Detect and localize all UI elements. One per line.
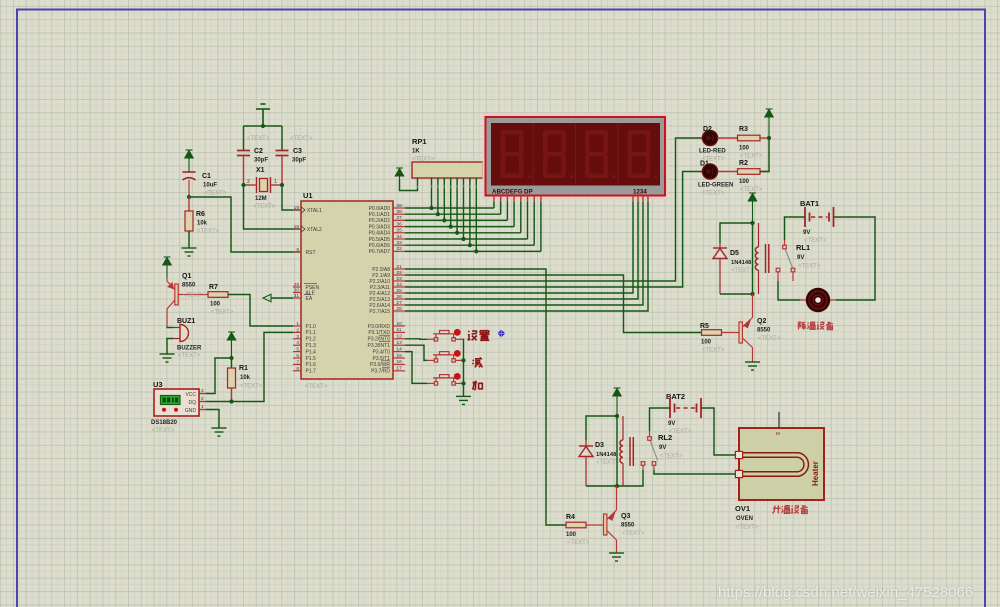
svg-text:BUZZER: BUZZER [177, 346, 202, 352]
svg-text:P1.3: P1.3 [306, 343, 317, 349]
svg-text:19: 19 [294, 205, 300, 211]
wire top rail C2-C3 [244, 125, 283, 127]
node: C1/R6/RST junction [187, 195, 191, 199]
wire RL2 center rail [616, 416, 618, 486]
svg-text:1N4148: 1N4148 [731, 260, 752, 266]
svg-text:30pF: 30pF [292, 158, 306, 164]
svg-text:D3: D3 [595, 442, 604, 449]
svg-text:P0.5/AD5: P0.5/AD5 [369, 237, 391, 243]
svg-text:P1.7: P1.7 [306, 369, 317, 375]
svg-text:26: 26 [397, 294, 403, 300]
svg-text:37: 37 [397, 215, 403, 221]
wire P2.1 to R5 [405, 275, 702, 333]
wire buzzer to ground [167, 339, 173, 355]
svg-text:100: 100 [210, 302, 221, 308]
node RL2 bottom [615, 484, 619, 488]
svg-text:OV1: OV1 [735, 504, 750, 513]
svg-text:DP: DP [524, 189, 533, 196]
svg-text:17: 17 [397, 366, 403, 372]
power symbol (LED rail) [765, 109, 773, 138]
LED D1 (LED-GREEN) [702, 164, 717, 179]
wire C1 junction to RST [189, 197, 301, 252]
svg-text:1N4148: 1N4148 [596, 452, 617, 458]
svg-text:P3.4/T0: P3.4/T0 [372, 349, 390, 355]
svg-text:15: 15 [397, 353, 403, 359]
wire D5 loop bottom [720, 293, 753, 295]
svg-text:P0.0/AD0: P0.0/AD0 [369, 206, 391, 212]
svg-text:DS18B20: DS18B20 [151, 420, 178, 426]
svg-text:39: 39 [397, 203, 403, 209]
wire P2.0 to R4 [405, 269, 566, 525]
svg-text:10uF: 10uF [203, 183, 217, 189]
svg-text:P1.4: P1.4 [306, 349, 317, 355]
svg-text:P1.1: P1.1 [306, 330, 317, 336]
svg-text:10: 10 [397, 321, 403, 327]
power symbol (R1) [227, 332, 235, 358]
svg-text:9V: 9V [797, 255, 804, 261]
svg-text:EA: EA [306, 296, 313, 302]
svg-text:1K: 1K [412, 149, 420, 155]
svg-text:XTAL2: XTAL2 [306, 227, 323, 233]
svg-text:5: 5 [296, 347, 299, 353]
svg-text:RP1: RP1 [412, 137, 427, 146]
RP1 pins 2-9 wires to P0 bus [431, 178, 433, 208]
label: cooling device (Chinese) [799, 322, 806, 330]
transistor Q1 (8550) [167, 277, 208, 327]
svg-text:P0.2/AD2: P0.2/AD2 [369, 218, 391, 224]
wire D3 loop bottom to RL2 contact [586, 470, 643, 486]
svg-text:D1: D1 [700, 161, 709, 168]
svg-text:1234: 1234 [633, 189, 647, 196]
svg-text:P0.3/AD3: P0.3/AD3 [369, 224, 391, 230]
svg-text:1: 1 [296, 321, 299, 327]
svg-text:<TEXT>: <TEXT> [204, 191, 227, 197]
resistor R6 [188, 197, 190, 211]
svg-text:ABCDEFG: ABCDEFG [492, 189, 523, 196]
svg-text:Q2: Q2 [757, 318, 766, 325]
svg-text:<TEXT>: <TEXT> [305, 384, 328, 390]
wire U3 DQ to P1.1 [206, 332, 293, 401]
svg-text:R7: R7 [209, 284, 218, 291]
display digit pins to P2 bus [632, 196, 634, 203]
svg-text:11: 11 [397, 327, 402, 333]
svg-text:RST: RST [306, 250, 316, 256]
ground (R6) [182, 248, 197, 256]
node SW3 common [461, 381, 465, 385]
svg-text:Q1: Q1 [182, 273, 191, 280]
svg-text:P3.0/RXD: P3.0/RXD [368, 324, 391, 330]
U1 left-side pins [293, 209, 301, 211]
svg-text:9V: 9V [803, 230, 810, 236]
svg-text:P0.7/AD7: P0.7/AD7 [369, 249, 391, 255]
svg-text:22: 22 [397, 270, 403, 276]
svg-text:2: 2 [296, 327, 299, 333]
svg-text:9: 9 [296, 247, 299, 253]
wire D3 loop top [586, 416, 617, 440]
svg-text:R1: R1 [239, 365, 248, 372]
capacitor C3 [281, 126, 283, 150]
svg-text:33: 33 [397, 240, 403, 246]
svg-text:P2.7/A15: P2.7/A15 [369, 309, 390, 315]
svg-text:U3: U3 [153, 380, 163, 389]
node R1/DQ junction [229, 399, 233, 403]
svg-text:<TEXT>: <TEXT> [736, 525, 759, 531]
push button SW2 (minus) [427, 352, 463, 363]
svg-text:100: 100 [739, 179, 750, 185]
svg-text:<TEXT>: <TEXT> [804, 238, 827, 244]
resistor R2 [718, 171, 738, 173]
svg-text:38: 38 [397, 209, 403, 215]
label: set button (Chinese) [468, 331, 477, 340]
node X1 pin2 [241, 183, 245, 187]
wire D5 loop top [720, 223, 753, 243]
svg-text:XTAL1: XTAL1 [306, 208, 323, 214]
relay RL2 switch [641, 431, 656, 470]
svg-text:8550: 8550 [182, 283, 196, 289]
svg-text:<TEXT>: <TEXT> [567, 540, 590, 546]
svg-text:OVEN: OVEN [736, 516, 753, 522]
push button SW3 (plus) [427, 375, 463, 386]
svg-text:18: 18 [294, 224, 300, 230]
ground (buttons) [456, 396, 471, 404]
resistor R7 [208, 292, 228, 298]
svg-text:8550: 8550 [621, 523, 635, 529]
node SW2 common [461, 358, 465, 362]
power symbol (RL1 rail) [748, 193, 756, 223]
node RL1 bottom [750, 292, 754, 296]
svg-text:4: 4 [296, 340, 299, 346]
wire P3.3 to SW2 [405, 345, 427, 360]
wire P2.2 to LED D2 [405, 138, 703, 281]
svg-text:X1: X1 [256, 167, 265, 174]
diode D3 (1N4148) [579, 440, 593, 486]
svg-text:3: 3 [296, 334, 299, 340]
svg-text:Heater: Heater [811, 461, 820, 486]
wire buttons common to ground [462, 339, 465, 396]
svg-text:C1: C1 [202, 173, 211, 180]
wire RL1 contact to motor left [778, 281, 800, 300]
node LED rail [767, 136, 771, 140]
svg-text:https://blog.csdn.net/weixin_4: https://blog.csdn.net/weixin_47528066 [718, 584, 973, 601]
capacitor C2 [243, 126, 245, 150]
svg-text:34: 34 [397, 234, 403, 240]
svg-text:M: M [776, 431, 780, 436]
svg-text:10k: 10k [240, 375, 251, 381]
svg-text:VCC: VCC [185, 392, 196, 398]
svg-text:<TEXT>: <TEXT> [622, 531, 645, 537]
node RL2 top [615, 414, 619, 418]
svg-text:<TEXT>: <TEXT> [702, 191, 725, 197]
ground (Q3) [609, 553, 624, 561]
capacitor C1 [183, 172, 196, 180]
svg-text:R5: R5 [700, 323, 709, 330]
svg-text:13: 13 [397, 340, 403, 346]
svg-text:<TEXT>: <TEXT> [596, 460, 619, 466]
svg-text:P0.6/AD6: P0.6/AD6 [369, 243, 391, 249]
svg-text:<TEXT>: <TEXT> [240, 384, 263, 390]
svg-text:24: 24 [397, 282, 403, 288]
oven OV1 (heater) [735, 412, 824, 500]
svg-text:LED-GREEN: LED-GREEN [698, 183, 733, 189]
svg-text:<TEXT>: <TEXT> [740, 154, 763, 160]
display segment pins to P0 bus [493, 196, 495, 203]
svg-text:U1: U1 [303, 191, 313, 200]
svg-text:GND: GND [185, 408, 197, 414]
svg-text:P0.1/AD1: P0.1/AD1 [369, 212, 391, 218]
svg-text:P3.3/INT1: P3.3/INT1 [367, 343, 390, 349]
svg-text:<TEXT>: <TEXT> [178, 353, 201, 359]
svg-text:23: 23 [397, 276, 403, 282]
wire X1 to XTAL2 [244, 185, 302, 229]
wire BAT1 to RL1 common [785, 217, 806, 240]
U1 right-side pins P0/P2/P3 [393, 207, 405, 209]
resistor R3 [718, 137, 738, 139]
svg-text:R4: R4 [566, 514, 575, 521]
wire Q1 collector to buzzer [167, 327, 173, 328]
push button SW1 (set) [427, 331, 463, 342]
wire U3 GND [206, 410, 219, 429]
LED D2 (LED-RED) [702, 130, 717, 145]
svg-text:6: 6 [296, 353, 299, 359]
svg-text:BAT1: BAT1 [800, 199, 819, 208]
label: heating device (Chinese) [773, 505, 781, 513]
svg-text:32: 32 [397, 246, 403, 252]
power symbol (Q1) [163, 257, 171, 277]
wire BAT2 to RL2 common [650, 408, 671, 431]
svg-text:30pF: 30pF [254, 158, 268, 164]
svg-text:R3: R3 [739, 126, 748, 133]
svg-text:<TEXT>: <TEXT> [290, 136, 313, 142]
ground (Q2) [745, 362, 760, 370]
wire X1 to XTAL1 [282, 185, 301, 210]
svg-text:P1.6: P1.6 [306, 362, 317, 368]
svg-text:P1.2: P1.2 [306, 337, 317, 343]
power symbol (RP1 common) [395, 168, 403, 180]
svg-text:P3.7/RD: P3.7/RD [371, 369, 390, 375]
transistor Q3 (8550) [586, 486, 617, 553]
cooling device label [0, 0, 1, 1]
label: plus button (Chinese) [472, 381, 482, 390]
svg-text:<TEXT>: <TEXT> [740, 187, 763, 193]
svg-text:9V: 9V [659, 445, 666, 451]
svg-text:P1.0: P1.0 [306, 324, 317, 330]
svg-text:8: 8 [296, 366, 299, 372]
svg-text:25: 25 [397, 288, 403, 294]
svg-text:28: 28 [397, 306, 403, 312]
node RL1 top [750, 221, 754, 225]
svg-text:<TEXT>: <TEXT> [660, 454, 683, 460]
svg-text:<TEXT>: <TEXT> [731, 268, 754, 274]
wire U3 VCC rail [206, 358, 232, 394]
svg-text:DQ: DQ [189, 400, 197, 406]
motor (cooling device) [800, 288, 836, 312]
svg-text:29: 29 [294, 282, 300, 288]
origin marker (blue diamond) [497, 330, 505, 338]
svg-text:10k: 10k [197, 221, 208, 227]
svg-text:2: 2 [247, 179, 250, 185]
wire BAT1 to motor right [834, 217, 876, 300]
wire LED rail to R2 [760, 138, 769, 172]
4-digit 7-segment display (red) [483, 114, 669, 199]
wire RL1 center rail [752, 223, 754, 294]
svg-text:35: 35 [397, 228, 403, 234]
svg-text:Q3: Q3 [621, 513, 630, 520]
svg-text:16: 16 [397, 359, 403, 365]
svg-text:14: 14 [397, 346, 403, 352]
svg-text:<TEXT>: <TEXT> [798, 264, 821, 270]
diode D5 (1N4148) [713, 243, 727, 294]
ground (BUZ1) [160, 354, 175, 362]
svg-text:<TEXT>: <TEXT> [669, 429, 692, 435]
svg-text:BAT2: BAT2 [666, 392, 685, 401]
svg-text:12M: 12M [255, 196, 267, 202]
ground (top of C2/C3) [256, 104, 270, 126]
svg-text:R6: R6 [196, 211, 205, 218]
svg-text:D5: D5 [730, 250, 739, 257]
wire P2.3 to LED D1 [405, 172, 703, 288]
ground (U3) [212, 428, 227, 436]
wire RP1 pin1 to power [400, 178, 418, 191]
svg-text:<TEXT>: <TEXT> [758, 336, 781, 342]
relay RL1 switch [776, 240, 795, 281]
wire EA pull with arrow [271, 297, 293, 299]
svg-text:<TEXT>: <TEXT> [247, 136, 270, 142]
node R1 top [229, 356, 233, 360]
wire RL2 contact to heater bottom terminal [654, 470, 735, 474]
svg-text:C2: C2 [254, 148, 263, 155]
svg-text:1: 1 [274, 179, 277, 185]
svg-text:RL1: RL1 [796, 243, 810, 252]
svg-text:12: 12 [397, 334, 403, 340]
svg-text:100: 100 [566, 532, 577, 538]
transistor Q2 (8550) [722, 294, 753, 362]
wire R7 to P1.0 [228, 295, 293, 327]
node X1 pin1 [280, 183, 284, 187]
wire P3.4 to SW3 [405, 352, 427, 384]
svg-text:7: 7 [296, 359, 299, 365]
svg-text:100: 100 [739, 146, 750, 152]
wire P3.2 to SW1 [405, 338, 427, 341]
svg-text:<TEXT>: <TEXT> [197, 229, 220, 235]
svg-text:<TEXT>: <TEXT> [152, 428, 175, 434]
P0 bus horizontal wires [405, 207, 494, 209]
svg-text:100: 100 [701, 340, 712, 346]
svg-text:21: 21 [397, 264, 403, 270]
svg-text:D2: D2 [703, 126, 712, 133]
svg-text:P0.4/AD4: P0.4/AD4 [369, 231, 391, 237]
node: top rail [261, 124, 265, 128]
svg-text:<TEXT>: <TEXT> [211, 310, 234, 316]
svg-text:9V: 9V [668, 421, 675, 427]
relay RL2 coil [620, 416, 633, 486]
relay RL1 coil [755, 223, 768, 294]
svg-text:36: 36 [397, 221, 403, 227]
svg-text:27: 27 [397, 300, 403, 306]
svg-text:C3: C3 [293, 148, 302, 155]
resistor R1 [231, 358, 233, 368]
svg-text:8550: 8550 [757, 328, 771, 334]
svg-text:LED-RED: LED-RED [699, 149, 726, 155]
svg-text:<TEXT>: <TEXT> [702, 348, 725, 354]
svg-text:P1.5: P1.5 [306, 356, 317, 362]
svg-text:<TEXT>: <TEXT> [183, 293, 206, 299]
resistor R4 [566, 522, 586, 528]
wire BAT2 to heater top terminal [701, 408, 735, 455]
svg-text:31: 31 [294, 293, 300, 299]
power symbol (RL2 rail) [613, 388, 621, 416]
svg-text:30: 30 [294, 288, 300, 294]
svg-text:<TEXT>: <TEXT> [253, 204, 276, 210]
svg-text:R2: R2 [739, 160, 748, 167]
label: minus button (Chinese) [472, 357, 482, 367]
resistor R5 [702, 330, 722, 336]
power symbol VCC (C1 branch) [185, 150, 193, 172]
